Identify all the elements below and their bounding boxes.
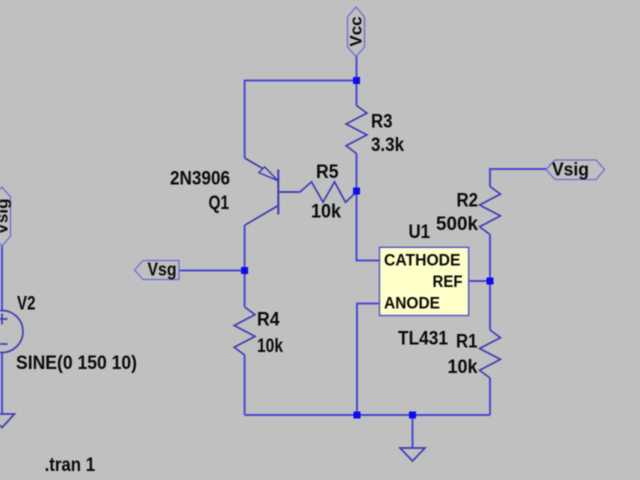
junction: Vcc node (rail / flag / R3)	[353, 77, 360, 84]
wire: U1 anode pin left and down to bottom rail	[357, 304, 380, 416]
svg-text:TL431: TL431	[398, 329, 448, 350]
wire: bottom ground rail	[245, 414, 490, 416]
wire: Q1 collector down to R4 top pin through node Vsg	[244, 225, 246, 307]
svg-text:R4: R4	[257, 310, 280, 331]
wire: Vsg flag to node Vsg	[179, 270, 245, 272]
resistor R3	[346, 106, 367, 154]
svg-text:10k: 10k	[311, 201, 341, 222]
flag Vsg (net label at Q1 collector / R4 node)	[135, 260, 180, 280]
resistor R5	[300, 182, 357, 202]
wire: R2 top pin up and right to Vsig flag	[490, 169, 546, 187]
svg-text:SINE(0 150 10): SINE(0 150 10)	[16, 352, 137, 374]
resistor R4	[234, 307, 255, 355]
wire: V2 minus terminal down to left ground	[1, 353, 3, 415]
svg-text:CATHODE: CATHODE	[384, 252, 461, 270]
junction: bottom rail / ground stub	[409, 412, 416, 419]
svg-text:Vsig: Vsig	[0, 199, 12, 235]
flag Vsig (left edge, rotated, on V2 plus terminal)	[0, 187, 12, 246]
svg-text:V2: V2	[17, 294, 36, 315]
wire: ground stub below bottom rail	[412, 415, 414, 448]
junction: bottom rail / anode branch	[354, 412, 361, 419]
flag Vsig (right, above R2)	[546, 160, 605, 180]
wire: R3 bottom pin to node B	[356, 154, 358, 192]
svg-text:Q1: Q1	[209, 193, 230, 214]
wire: R2 bottom pin to node REF	[489, 235, 491, 282]
wire: U1 ref pin to node REF	[469, 280, 490, 282]
svg-text:U1: U1	[409, 222, 431, 243]
voltage source V2	[0, 311, 23, 353]
wire: Vcc node to R3 top pin	[356, 81, 358, 107]
junction: node REF (U1 ref / R2 / R1)	[487, 278, 494, 285]
wire: left Vsig flag stem down to V2 plus terminal	[1, 246, 3, 311]
junction: node Vsg (collector / flag / R4)	[241, 267, 248, 274]
wire: top rail from emitter column up and right to Vcc node	[245, 81, 357, 159]
resistor R1	[480, 330, 501, 378]
svg-text:Vsig: Vsig	[552, 160, 589, 180]
wire: R1 bottom pin to bottom rail	[489, 378, 491, 415]
svg-text:10k: 10k	[448, 357, 478, 378]
junction: node B (R3 / R5 / U1 cathode)	[353, 188, 360, 195]
svg-text:R5: R5	[316, 162, 339, 183]
op-amp U1 (TL431 shunt regulator box)	[380, 247, 469, 315]
svg-text:.tran 1: .tran 1	[45, 454, 96, 476]
wire: node REF to R1 top pin	[489, 281, 491, 330]
svg-text:3.3k: 3.3k	[371, 135, 404, 156]
svg-text:Vcc: Vcc	[347, 16, 366, 46]
svg-text:500k: 500k	[436, 214, 478, 235]
svg-text:REF: REF	[433, 273, 463, 291]
svg-text:ANODE: ANODE	[384, 295, 440, 313]
ground (left, below V2, clipped at edge)	[0, 414, 15, 428]
resistor R2	[480, 187, 501, 235]
ground (right, below bottom rail)	[400, 448, 425, 461]
svg-text:R2: R2	[457, 191, 479, 212]
wire: R4 bottom pin to bottom rail	[244, 355, 246, 415]
svg-text:R3: R3	[371, 112, 393, 133]
svg-text:2N3906: 2N3906	[170, 169, 230, 190]
svg-text:R1: R1	[456, 332, 478, 353]
wire: node B down to U1 cathode pin	[357, 191, 380, 261]
flag Vcc (power net, top)	[347, 7, 366, 57]
wire: Vcc flag stem	[356, 57, 358, 79]
svg-text:Vsg: Vsg	[148, 260, 177, 280]
svg-text:10k: 10k	[257, 336, 283, 357]
transistor Q1 (PNP 2N3906)	[245, 158, 300, 225]
